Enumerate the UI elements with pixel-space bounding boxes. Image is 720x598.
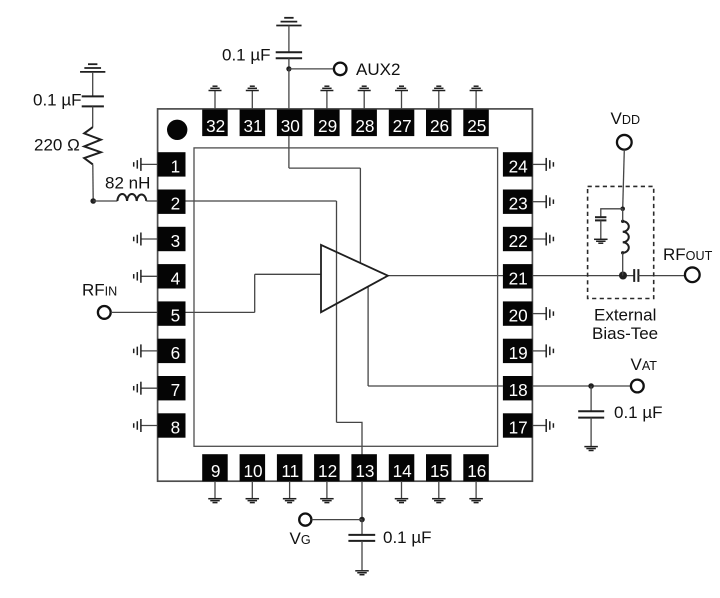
ground at pin 8 xyxy=(134,419,158,432)
wire pin5 net to amplifier input xyxy=(255,273,321,275)
pin 28 xyxy=(351,110,377,137)
ground at pin 28 xyxy=(358,86,371,109)
ground G5 (bias tee) xyxy=(594,239,608,243)
terminal RFIN xyxy=(98,306,111,319)
svg-text:17: 17 xyxy=(509,418,528,438)
svg-text:10: 10 xyxy=(243,461,262,481)
svg-text:21: 21 xyxy=(509,268,528,288)
terminal VAT xyxy=(631,380,644,393)
svg-text:12: 12 xyxy=(318,461,337,481)
pin 5 xyxy=(158,301,186,325)
wire node F to L2 xyxy=(622,209,624,222)
wire node C to AUX2 terminal xyxy=(289,68,334,70)
svg-text:16: 16 xyxy=(467,461,486,481)
pin 12 xyxy=(314,454,340,481)
wire jog to pin 13 column xyxy=(337,422,363,519)
wire node D to C4 xyxy=(590,386,592,411)
svg-text:0.1 µF: 0.1 µF xyxy=(614,403,663,422)
IC inner die outline xyxy=(194,148,498,446)
node F junction dot xyxy=(620,207,625,212)
terminal RFOUT xyxy=(685,267,700,282)
pin 32 xyxy=(202,110,228,137)
ground at pin 26 xyxy=(432,86,445,109)
svg-text:24: 24 xyxy=(509,156,529,176)
pin 15 xyxy=(426,454,452,481)
wire R1 to node A xyxy=(92,164,94,201)
wire ground to C3 xyxy=(288,26,290,53)
wire pin 21 output line xyxy=(388,275,634,277)
svg-text:11: 11 xyxy=(281,461,299,481)
pin 21 xyxy=(503,264,533,288)
svg-text:20: 20 xyxy=(509,306,528,326)
ground at pin 6 xyxy=(134,344,158,357)
pin 3 xyxy=(158,227,186,251)
wire L2 to node E xyxy=(622,253,624,276)
coil bottom pad dot xyxy=(621,251,624,254)
ground at pin 22 xyxy=(532,233,553,246)
wire L1 to pin 2 and into die xyxy=(146,200,336,202)
wire C2 to ground xyxy=(361,541,363,571)
capacitor C5 (series blocking) xyxy=(634,269,638,282)
pin-1 indicator dot xyxy=(167,120,187,140)
ground at pin 32 xyxy=(209,86,222,109)
svg-text:29: 29 xyxy=(318,116,337,136)
svg-text:30: 30 xyxy=(281,116,300,136)
svg-text:28: 28 xyxy=(355,116,374,136)
ground G3 (top of C3) xyxy=(276,18,301,26)
svg-text:3: 3 xyxy=(171,231,181,251)
ground at pin 16 xyxy=(469,481,483,502)
svg-text:1: 1 xyxy=(171,156,181,176)
wire node B to C2 xyxy=(361,520,363,535)
svg-text:82 nH: 82 nH xyxy=(105,173,150,192)
svg-text:31: 31 xyxy=(243,116,262,136)
pin 9 xyxy=(202,454,228,481)
ground at pin 31 xyxy=(246,86,259,109)
pin 17 xyxy=(503,413,533,437)
inductor L1 82 nH xyxy=(117,194,146,201)
svg-text:32: 32 xyxy=(206,116,225,136)
pin 1 xyxy=(158,152,186,176)
wire pin30 net down to amplifier xyxy=(359,168,361,263)
pin 20 xyxy=(503,301,533,325)
ground at pin 9 xyxy=(208,481,222,502)
pin 23 xyxy=(503,190,533,214)
inductor L2 (bias tee choke) xyxy=(623,221,629,253)
ground at pin 20 xyxy=(532,307,553,320)
svg-text:4: 4 xyxy=(171,268,181,288)
pin 19 xyxy=(503,339,533,363)
pin 7 xyxy=(158,376,186,400)
svg-text:26: 26 xyxy=(430,116,449,136)
svg-text:7: 7 xyxy=(171,380,181,400)
wire C6 to ground xyxy=(600,220,602,239)
wire RFIN to pin 5 and inside xyxy=(111,311,255,313)
svg-text:15: 15 xyxy=(430,461,449,481)
wire pin30 net horizontal xyxy=(289,167,361,169)
amplifier core (triangle) xyxy=(321,245,388,312)
pin 6 xyxy=(158,339,186,363)
ground at pin 25 xyxy=(470,86,483,109)
IC package U1 outline xyxy=(158,109,533,481)
svg-text:2: 2 xyxy=(171,194,181,214)
wire pin5 net up xyxy=(254,274,256,312)
ground at pin 27 xyxy=(395,86,408,109)
svg-text:AUX2: AUX2 xyxy=(356,60,400,79)
ground at pin 24 xyxy=(532,158,553,171)
ground at pin 15 xyxy=(432,481,446,502)
svg-text:8: 8 xyxy=(171,418,181,438)
svg-text:22: 22 xyxy=(509,231,528,251)
ground G2 (below C2) xyxy=(355,571,369,575)
ground at pin 14 xyxy=(395,481,409,502)
wire C5 to RFOUT xyxy=(638,275,685,277)
ground at pin 12 xyxy=(320,481,334,502)
pin 22 xyxy=(503,227,533,251)
svg-text:6: 6 xyxy=(171,343,181,363)
pin 14 xyxy=(389,454,415,481)
svg-text:13: 13 xyxy=(355,461,374,481)
wire pin 18 to VAT xyxy=(532,385,631,387)
svg-text:External: External xyxy=(594,306,656,325)
ground at pin 29 xyxy=(320,86,333,109)
pin 10 xyxy=(240,454,266,481)
node E junction dot (bias tee output) xyxy=(619,272,627,280)
capacitor C3 0.1uF xyxy=(276,52,302,58)
ground at pin 3 xyxy=(134,233,158,246)
pin 27 xyxy=(389,110,415,137)
svg-text:0.1 µF: 0.1 µF xyxy=(383,528,432,547)
ground G1 (top of 220-ohm branch) xyxy=(80,64,105,72)
svg-text:19: 19 xyxy=(509,343,528,363)
node D junction dot xyxy=(588,383,594,389)
capacitor C2 0.1uF xyxy=(348,535,375,541)
pin 26 xyxy=(426,110,452,137)
pin 25 xyxy=(463,110,489,137)
ground at pin 11 xyxy=(283,481,297,502)
pin 18 xyxy=(503,376,533,400)
pin 29 xyxy=(314,110,340,137)
ground at pin 7 xyxy=(134,382,158,395)
ground at pin 19 xyxy=(532,344,553,357)
svg-text:23: 23 xyxy=(509,194,528,214)
capacitor C6 (bias tee shunt) xyxy=(595,217,606,220)
wire node A to L1 xyxy=(93,200,117,202)
svg-text:0.1 µF: 0.1 µF xyxy=(222,45,271,64)
ground at pin 4 xyxy=(134,270,158,283)
pin 31 xyxy=(240,110,266,137)
ground G4 (below C4) xyxy=(584,447,598,451)
pin 2 xyxy=(158,190,186,214)
svg-text:0.1 µF: 0.1 µF xyxy=(33,91,82,110)
wire C3 to node C xyxy=(288,58,290,69)
svg-text:Bias-Tee: Bias-Tee xyxy=(592,324,658,343)
ground at pin 17 xyxy=(532,419,553,432)
resistor R1 220 ohm xyxy=(84,127,101,164)
pin 11 xyxy=(277,454,303,481)
wire node F to C6 xyxy=(601,209,623,217)
wire amplifier to pin 18 (down) xyxy=(367,287,369,387)
ground at pin 23 xyxy=(532,195,553,208)
svg-text:25: 25 xyxy=(467,116,486,136)
pin 24 xyxy=(503,152,533,176)
capacitor C4 0.1uF xyxy=(578,411,604,417)
ground at pin 10 xyxy=(246,481,259,502)
pin 30 xyxy=(277,110,303,137)
svg-text:27: 27 xyxy=(393,116,412,136)
wire to pin 18 (right) xyxy=(368,385,503,387)
svg-text:18: 18 xyxy=(509,380,528,400)
wire ground to C1 xyxy=(92,72,94,97)
terminal VG xyxy=(299,514,311,526)
wire pin2 net vertical xyxy=(336,201,338,422)
svg-text:5: 5 xyxy=(171,306,181,326)
node A junction dot xyxy=(90,198,96,204)
pin 4 xyxy=(158,264,186,288)
pin 16 xyxy=(463,454,489,481)
wire VG to node B xyxy=(312,519,363,521)
node C junction dot xyxy=(286,66,291,71)
wire node C through pin 30 into die xyxy=(288,69,290,168)
node B junction dot (VG node) xyxy=(359,517,365,523)
svg-text:220 Ω: 220 Ω xyxy=(34,135,80,154)
wire VDD down to bias tee xyxy=(623,150,625,209)
svg-text:14: 14 xyxy=(393,461,413,481)
pin 13 xyxy=(351,454,377,481)
capacitor C1 0.1uF xyxy=(82,96,104,106)
coil top pad dot xyxy=(621,220,624,223)
terminal AUX2 xyxy=(334,63,347,76)
wire C4 to ground xyxy=(590,418,592,447)
bias tee dashed box xyxy=(588,186,654,298)
ground at pin 1 xyxy=(134,158,158,171)
svg-text:9: 9 xyxy=(211,461,221,481)
pin 8 xyxy=(158,413,186,437)
terminal VDD xyxy=(617,135,632,150)
wire C1 to R1 xyxy=(92,106,94,127)
